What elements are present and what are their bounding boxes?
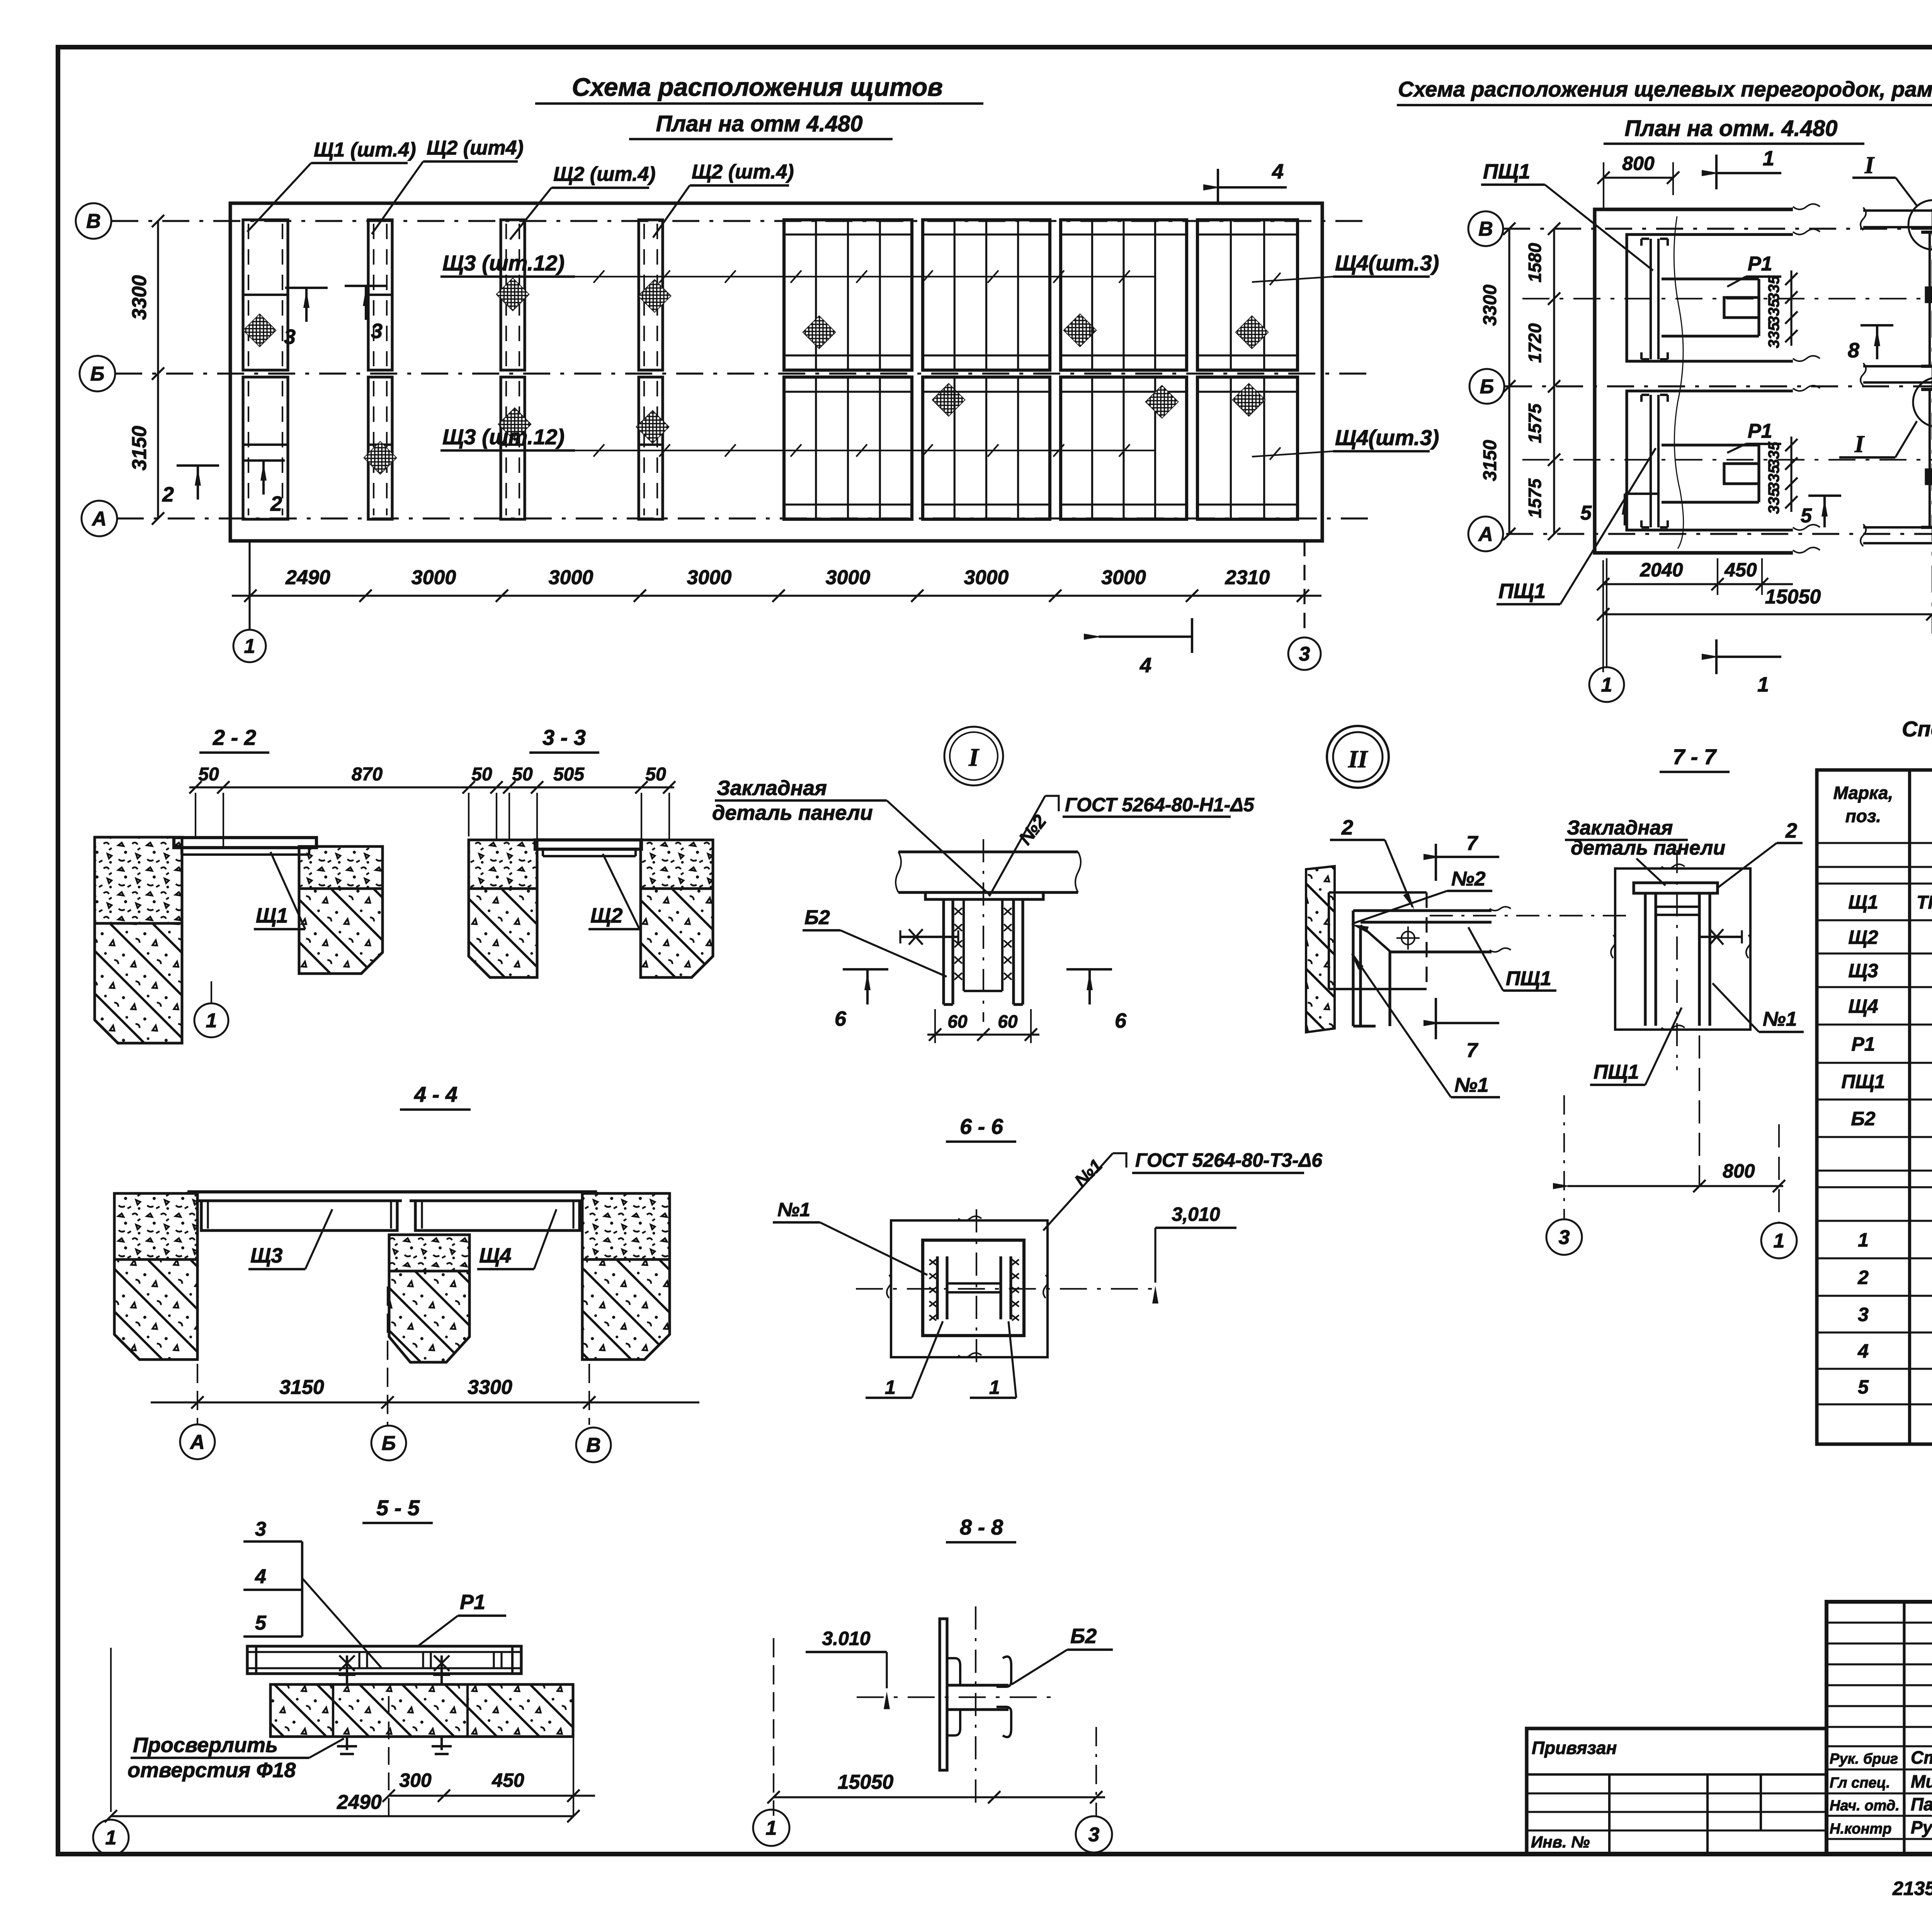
plan2 grid В [1503, 228, 1932, 229]
spec table rows upper [1841, 891, 1932, 1130]
label 2 detII [1330, 816, 1414, 909]
7-7 outer square [1611, 864, 1751, 1030]
svg-text:7: 7 [1466, 832, 1478, 855]
spec table rows lower [1857, 1229, 1932, 1398]
7-7 axes [1676, 850, 1678, 1070]
4-4 panel Щ4 box [415, 1201, 580, 1230]
svg-text:4: 4 [1139, 654, 1151, 677]
section mark 3 right [345, 286, 387, 343]
label ГОСТ Т3 [1043, 1149, 1323, 1230]
svg-text:План на отм. 4.480: План на отм. 4.480 [1624, 116, 1837, 141]
svg-text:300: 300 [399, 1769, 432, 1791]
label Б2 det1 [803, 906, 947, 977]
section mark 7 top [1423, 832, 1499, 881]
plan2 break line [1674, 216, 1683, 549]
svg-text:Б: Б [382, 1432, 396, 1455]
svg-text:ТП 902-2-: ТП 902-2- [1917, 892, 1932, 913]
77 bubble 1 [1761, 1223, 1797, 1258]
svg-text:3000: 3000 [826, 566, 871, 589]
44 bubble А [180, 1424, 215, 1459]
svg-text:7 - 7: 7 - 7 [1673, 744, 1717, 769]
svg-text:Р1: Р1 [1748, 420, 1772, 442]
svg-text:3: 3 [1858, 1304, 1869, 1326]
svg-text:3150: 3150 [128, 426, 151, 471]
svg-text:В: В [86, 210, 101, 233]
6-6 inner square [923, 1240, 1024, 1336]
label Щ3 upper [440, 251, 1155, 283]
4-4 mid pier [389, 1235, 469, 1362]
svg-text:ПЩ1: ПЩ1 [1841, 1071, 1885, 1093]
svg-text:3300: 3300 [128, 275, 151, 320]
partition ПЩ1 lower [1641, 395, 1668, 527]
section 5-5 title [362, 1496, 433, 1523]
plan2 bubble А [1468, 517, 1503, 551]
svg-text:Щ4(шт.3): Щ4(шт.3) [1335, 425, 1439, 450]
label просверлить [128, 1734, 344, 1782]
5-5 bolt a [337, 1655, 357, 1754]
label Щ4 44 [477, 1209, 556, 1269]
section 2-2 title [199, 725, 269, 753]
svg-text:50: 50 [512, 764, 533, 785]
signature rows names [1911, 1747, 1932, 1837]
2-2 panel Щ1 plate [174, 838, 316, 855]
svg-text:А: А [189, 1431, 205, 1453]
label №2 detII [1351, 868, 1492, 933]
label Щ4 upper [1252, 251, 1439, 285]
svg-text:3300: 3300 [1480, 284, 1500, 326]
6-6 outer square [887, 1216, 1048, 1358]
axis bubble А [82, 501, 117, 536]
svg-text:2: 2 [162, 483, 174, 506]
svg-text:5: 5 [1580, 502, 1592, 524]
svg-text:Щ4: Щ4 [479, 1244, 511, 1267]
svg-text:ПЩ1: ПЩ1 [1594, 1061, 1639, 1083]
5-5 callout 3-4-5 [243, 1518, 382, 1668]
svg-text:А: А [1478, 523, 1493, 546]
3-3 left wall [469, 840, 537, 977]
2-2 left wall [95, 837, 182, 1043]
2-2 bubble 1 [194, 981, 228, 1037]
svg-text:ГОСТ 5264-80-Т3-Δ6: ГОСТ 5264-80-Т3-Δ6 [1135, 1149, 1323, 1171]
svg-text:Просверлить: Просверлить [133, 1734, 278, 1757]
svg-text:Схема расположения щелевых пер: Схема расположения щелевых перегородок, … [1398, 77, 1932, 101]
svg-text:ГОСТ 5264-80-Н1-Δ5: ГОСТ 5264-80-Н1-Δ5 [1065, 794, 1255, 816]
svg-text:Панченко: Панченко [1911, 1794, 1932, 1814]
svg-text:1: 1 [244, 635, 255, 658]
grid line А [117, 517, 1368, 519]
plan1 tank outline [230, 203, 1322, 541]
detail I bolt [900, 929, 958, 945]
svg-text:3: 3 [1088, 1824, 1100, 1846]
svg-text:15050: 15050 [838, 1771, 894, 1793]
5-5 bolt b [432, 1655, 452, 1754]
svg-text:I: I [1864, 152, 1875, 178]
7-7 dim 800 [1553, 1035, 1785, 1223]
svg-text:335: 335 [1765, 465, 1782, 491]
label №1 77 [1713, 983, 1804, 1032]
3-3 dims [463, 764, 675, 848]
svg-text:3: 3 [284, 325, 296, 348]
detail circle I upper [1852, 152, 1932, 250]
detail I axis [983, 839, 984, 1022]
44 bubble В [576, 1428, 611, 1462]
section mark 1 bottom [1702, 639, 1781, 696]
svg-text:Щ3: Щ3 [1848, 960, 1878, 982]
svg-text:3000: 3000 [1101, 566, 1146, 589]
svg-text:1575: 1575 [1525, 403, 1545, 443]
plan1 bottom dims [232, 566, 1321, 602]
svg-text:3 - 3: 3 - 3 [543, 725, 586, 750]
label закладная деталь [712, 777, 989, 894]
55 bubble 1 [93, 1820, 129, 1855]
4-4 left pier [114, 1193, 197, 1360]
section 4-4 title [400, 1082, 471, 1110]
detail I slab [896, 852, 1081, 892]
partition ПЩ1 upper [1641, 239, 1668, 359]
section mark 4 top [1203, 160, 1287, 204]
svg-text:450: 450 [1724, 559, 1757, 581]
label №1 66 left [773, 1199, 927, 1275]
label Щ3 lower [440, 425, 1155, 457]
svg-text:№1: №1 [1454, 1074, 1489, 1096]
plan2 bubble Б [1469, 369, 1504, 404]
svg-text:Миллер: Миллер [1911, 1771, 1932, 1791]
svg-text:4 - 4: 4 - 4 [414, 1082, 457, 1106]
svg-text:6: 6 [835, 1007, 847, 1030]
svg-text:5: 5 [1801, 505, 1812, 527]
svg-text:5: 5 [255, 1612, 267, 1634]
panel Щ2 col4 [636, 220, 671, 519]
7-7 partition plates [1645, 893, 1710, 1026]
svg-text:3: 3 [371, 320, 383, 343]
svg-text:1: 1 [1774, 1230, 1785, 1252]
svg-text:1580: 1580 [1525, 243, 1545, 282]
svg-text:3,010: 3,010 [1172, 1203, 1220, 1225]
svg-text:3000: 3000 [412, 566, 456, 589]
svg-text:Щ2 (шт4): Щ2 (шт4) [427, 137, 524, 159]
4-4 panel Щ3 box [201, 1201, 397, 1230]
svg-text:Р1: Р1 [1748, 253, 1772, 275]
5-5 concrete base [270, 1684, 573, 1737]
2-2 right wall [299, 846, 383, 974]
signature rows labels [1830, 1751, 1900, 1837]
section mark 6 right [1066, 969, 1127, 1032]
section mark 7 bottom [1423, 998, 1499, 1062]
svg-text:Марка,: Марка, [1833, 783, 1893, 803]
section 3-3 title [529, 725, 599, 753]
svg-text:335: 335 [1765, 488, 1782, 514]
4-4 top plates [187, 1192, 597, 1201]
label Щ3 44 [248, 1209, 332, 1269]
svg-text:Б2: Б2 [1851, 1108, 1875, 1130]
privyazan box [1527, 1728, 1827, 1854]
svg-text:3.010: 3.010 [822, 1628, 870, 1649]
label Щ2 s33 [588, 854, 639, 929]
plan2 dim 1580-1720-1575 [1525, 223, 1560, 540]
label Р1 55 [417, 1591, 506, 1647]
svg-text:Схема расположения щитов: Схема расположения щитов [572, 73, 943, 101]
svg-text:800: 800 [1622, 153, 1655, 174]
label №1 detII [1351, 953, 1500, 1097]
detail II wall [1306, 866, 1335, 1032]
plan2 grid Б [1505, 385, 1932, 387]
svg-text:3000: 3000 [964, 566, 1009, 589]
label 2 77 [1718, 819, 1803, 888]
svg-text:Щ1: Щ1 [1848, 891, 1878, 913]
svg-text:60: 60 [998, 1011, 1018, 1032]
svg-text:План на отм 4.480: План на отм 4.480 [656, 111, 863, 136]
svg-text:1: 1 [989, 1377, 1000, 1398]
svg-text:3000: 3000 [549, 566, 594, 589]
column bubble 1 [233, 541, 266, 662]
svg-text:3000: 3000 [687, 566, 732, 589]
88 bubble 1 [753, 1810, 789, 1846]
axis bubble Б [80, 356, 115, 391]
label закладная 77 [1565, 817, 1725, 885]
svg-text:2310: 2310 [1225, 566, 1270, 589]
svg-text:Руссин: Руссин [1911, 1817, 1932, 1837]
plan2 bubble В [1468, 211, 1503, 246]
plan2 mid axis lines [1522, 299, 1932, 460]
5-5 frame Р1 [247, 1646, 521, 1674]
svg-text:7: 7 [1466, 1039, 1478, 1062]
svg-text:6: 6 [1115, 1009, 1127, 1032]
svg-text:21350-01: 21350-01 [1892, 1878, 1932, 1899]
panel Щ3 bay6 [923, 220, 1096, 519]
svg-text:870: 870 [352, 764, 383, 785]
section 8-8 title [946, 1515, 1016, 1542]
svg-text:ПЩ1: ПЩ1 [1498, 580, 1546, 603]
svg-text:3300: 3300 [468, 1376, 512, 1399]
svg-text:50: 50 [471, 764, 492, 785]
svg-text:Щ2: Щ2 [590, 904, 622, 927]
plan2 tank walls [1595, 204, 1820, 553]
detail II axis [1430, 915, 1634, 916]
svg-text:1: 1 [206, 1010, 217, 1032]
svg-text:В: В [1478, 218, 1493, 240]
svg-text:№2: №2 [1451, 868, 1486, 890]
label ПЩ1 top [1481, 160, 1653, 270]
title block left grid [1827, 1602, 1932, 1854]
8-8 axes [857, 1606, 1060, 1804]
plan2 bubble 1 [1589, 558, 1624, 702]
svg-text:В: В [586, 1434, 601, 1457]
svg-text:Б: Б [90, 363, 105, 385]
label Щ1 [247, 139, 416, 232]
label Р1 lower [1727, 420, 1781, 453]
panel Щ3 bay5 [784, 220, 965, 519]
label Щ4 lower [1252, 425, 1439, 460]
svg-text:4: 4 [1857, 1340, 1869, 1362]
svg-text:А: А [91, 508, 107, 530]
frame Р1 upper [1662, 279, 1759, 336]
svg-text:Закладная: Закладная [1567, 817, 1673, 839]
svg-text:335: 335 [1765, 442, 1782, 467]
svg-text:2490: 2490 [337, 1791, 382, 1813]
4-4 right pier [582, 1193, 670, 1360]
svg-text:2: 2 [270, 492, 282, 515]
grid line В [111, 220, 1368, 222]
section mark 3 left [284, 288, 328, 348]
svg-text:Закладная: Закладная [717, 777, 827, 800]
svg-text:800: 800 [1723, 1160, 1755, 1182]
svg-text:Нач. отд.: Нач. отд. [1830, 1798, 1900, 1814]
dim 2040-450 [1597, 558, 1793, 595]
detail circle I lower [1839, 377, 1932, 457]
svg-text:I: I [1854, 431, 1865, 457]
panel Щ1 col1 [243, 220, 288, 519]
wall bands at beam [1861, 207, 1932, 546]
svg-text:ПЩ1: ПЩ1 [1506, 967, 1551, 990]
88 bubble 3 [1076, 1816, 1112, 1853]
66 leader 1 right [970, 1321, 1016, 1398]
section 6-6 title [946, 1114, 1016, 1142]
svg-text:8: 8 [1848, 339, 1859, 362]
section mark 8 left [1848, 325, 1893, 362]
svg-text:3: 3 [1299, 643, 1310, 665]
2-2 dims [189, 764, 543, 848]
svg-text:Рук. бриг: Рук. бриг [1830, 1751, 1898, 1767]
svg-text:4: 4 [255, 1565, 266, 1588]
beam axis dash [1932, 209, 1932, 634]
section 7-7 title [1660, 744, 1730, 772]
label Р1 upper [1727, 253, 1781, 287]
svg-text:Щ4: Щ4 [1848, 996, 1878, 1017]
6-6 axes [856, 1209, 1155, 1370]
svg-text:1: 1 [766, 1817, 777, 1839]
6-6 beam section [929, 1256, 1019, 1321]
beam Б2 upper [1921, 232, 1932, 366]
3-3 right wall [641, 840, 713, 977]
label ПЩ1 77 [1590, 1008, 1682, 1085]
dims 335 lower [1765, 437, 1798, 514]
svg-text:Щ2 (шт.4): Щ2 (шт.4) [553, 163, 656, 185]
dim 15050 right plan [1597, 560, 1932, 672]
svg-text:60: 60 [947, 1011, 968, 1032]
svg-text:№1: №1 [1763, 1008, 1797, 1030]
panel Щ2 col3 [497, 220, 531, 519]
dim 800 top [1597, 153, 1679, 209]
svg-text:II: II [1348, 745, 1368, 773]
detail II circle [1327, 726, 1389, 788]
svg-text:Щ1: Щ1 [256, 904, 288, 927]
svg-text:15050: 15050 [1765, 586, 1821, 608]
svg-text:50: 50 [645, 764, 666, 785]
elev 3.010 88 [806, 1628, 890, 1709]
section mark 5 right [1801, 496, 1841, 527]
svg-text:335: 335 [1765, 299, 1782, 325]
svg-text:Р1: Р1 [460, 1591, 485, 1614]
8-8 plate [940, 1619, 947, 1770]
detail I circle [944, 727, 1003, 785]
svg-text:Привязан: Привязан [1532, 1738, 1617, 1758]
svg-text:Щ4(шт.3): Щ4(шт.3) [1335, 251, 1439, 275]
svg-text:335: 335 [1765, 275, 1782, 301]
svg-text:4: 4 [1272, 160, 1284, 183]
panel Щ3 bay7 [1061, 220, 1187, 519]
77 bubble 3 [1546, 1219, 1582, 1255]
7-7 bolt [1699, 929, 1742, 945]
svg-text:2 - 2: 2 - 2 [213, 725, 256, 750]
spec table header [1833, 783, 1932, 826]
grid line Б [115, 372, 1368, 374]
dims 335 upper [1765, 270, 1798, 348]
svg-text:Щ2 (шт.4): Щ2 (шт.4) [692, 161, 794, 183]
detail I dims 60-60 [927, 1009, 1039, 1043]
label ГОСТ 5264-80-Н1 [989, 794, 1255, 896]
svg-text:Б2: Б2 [804, 906, 830, 929]
svg-text:1: 1 [1763, 147, 1774, 170]
svg-text:1: 1 [1858, 1229, 1869, 1251]
5-5 dim 2490 [105, 1648, 580, 1822]
44 bubble Б [371, 1426, 406, 1460]
svg-text:Н.контр: Н.контр [1830, 1821, 1891, 1837]
svg-text:6 - 6: 6 - 6 [960, 1114, 1003, 1139]
svg-text:Щ2: Щ2 [1848, 926, 1878, 948]
section mark 6 left [835, 969, 888, 1030]
plan2 title [1397, 77, 1932, 105]
svg-text:1: 1 [1601, 674, 1612, 696]
svg-text:2: 2 [1857, 1267, 1869, 1288]
66 leader 1 left [866, 1321, 943, 1398]
svg-text:2: 2 [1341, 816, 1353, 839]
plan2 subtitle [1604, 116, 1864, 144]
section mark 1 top [1702, 147, 1781, 189]
5-5 dims 300-450 [383, 1696, 595, 1816]
svg-text:1: 1 [1757, 673, 1769, 696]
svg-text:3: 3 [255, 1518, 266, 1540]
section mark 5 left [1580, 494, 1658, 525]
svg-text:2: 2 [1785, 819, 1797, 842]
spec table grid [1817, 770, 1932, 1444]
svg-text:Б: Б [1480, 376, 1494, 398]
svg-text:№1: №1 [777, 1199, 810, 1220]
svg-text:5 - 5: 5 - 5 [376, 1496, 420, 1520]
svg-text:335: 335 [1765, 322, 1782, 348]
plan1 title [535, 73, 983, 104]
axis bubble В [76, 203, 111, 239]
svg-text:2490: 2490 [285, 566, 330, 589]
svg-text:Щ1 (шт.4): Щ1 (шт.4) [314, 139, 416, 161]
svg-text:50: 50 [198, 764, 219, 785]
panel Щ2 col2 [364, 220, 397, 519]
plan2 dim 3300-3150 [1480, 223, 1515, 540]
8-8 beam Б2 section [947, 1657, 1011, 1737]
svg-text:5: 5 [1858, 1376, 1869, 1398]
label ПЩ1 bottom [1497, 448, 1656, 604]
svg-text:450: 450 [492, 1769, 524, 1791]
svg-text:8 - 8: 8 - 8 [960, 1515, 1003, 1539]
section mark 4 bottom [1084, 618, 1192, 677]
section mark 2 right [242, 461, 285, 515]
svg-text:3150: 3150 [279, 1376, 324, 1399]
label Щ2 a [372, 137, 524, 234]
beam Б2 lower [1921, 389, 1932, 527]
detail II angle [1353, 907, 1511, 1026]
label Щ1 s22 [254, 852, 305, 929]
svg-text:2040: 2040 [1639, 559, 1683, 581]
8-8 dim 15050 [767, 1638, 1105, 1816]
svg-text:I: I [968, 743, 980, 772]
elev 3.010 66 [1152, 1203, 1236, 1304]
label Щ2 b [510, 163, 656, 240]
label Щ2 c [653, 161, 794, 238]
svg-text:3: 3 [1559, 1226, 1570, 1249]
svg-text:деталь панели: деталь панели [712, 801, 873, 824]
svg-text:Гл спец.: Гл спец. [1830, 1775, 1890, 1791]
svg-text:Спецификация к схемам располож: Спецификация к схемам расположения щитов… [1902, 717, 1932, 741]
7-7 embed plate [1634, 883, 1718, 893]
